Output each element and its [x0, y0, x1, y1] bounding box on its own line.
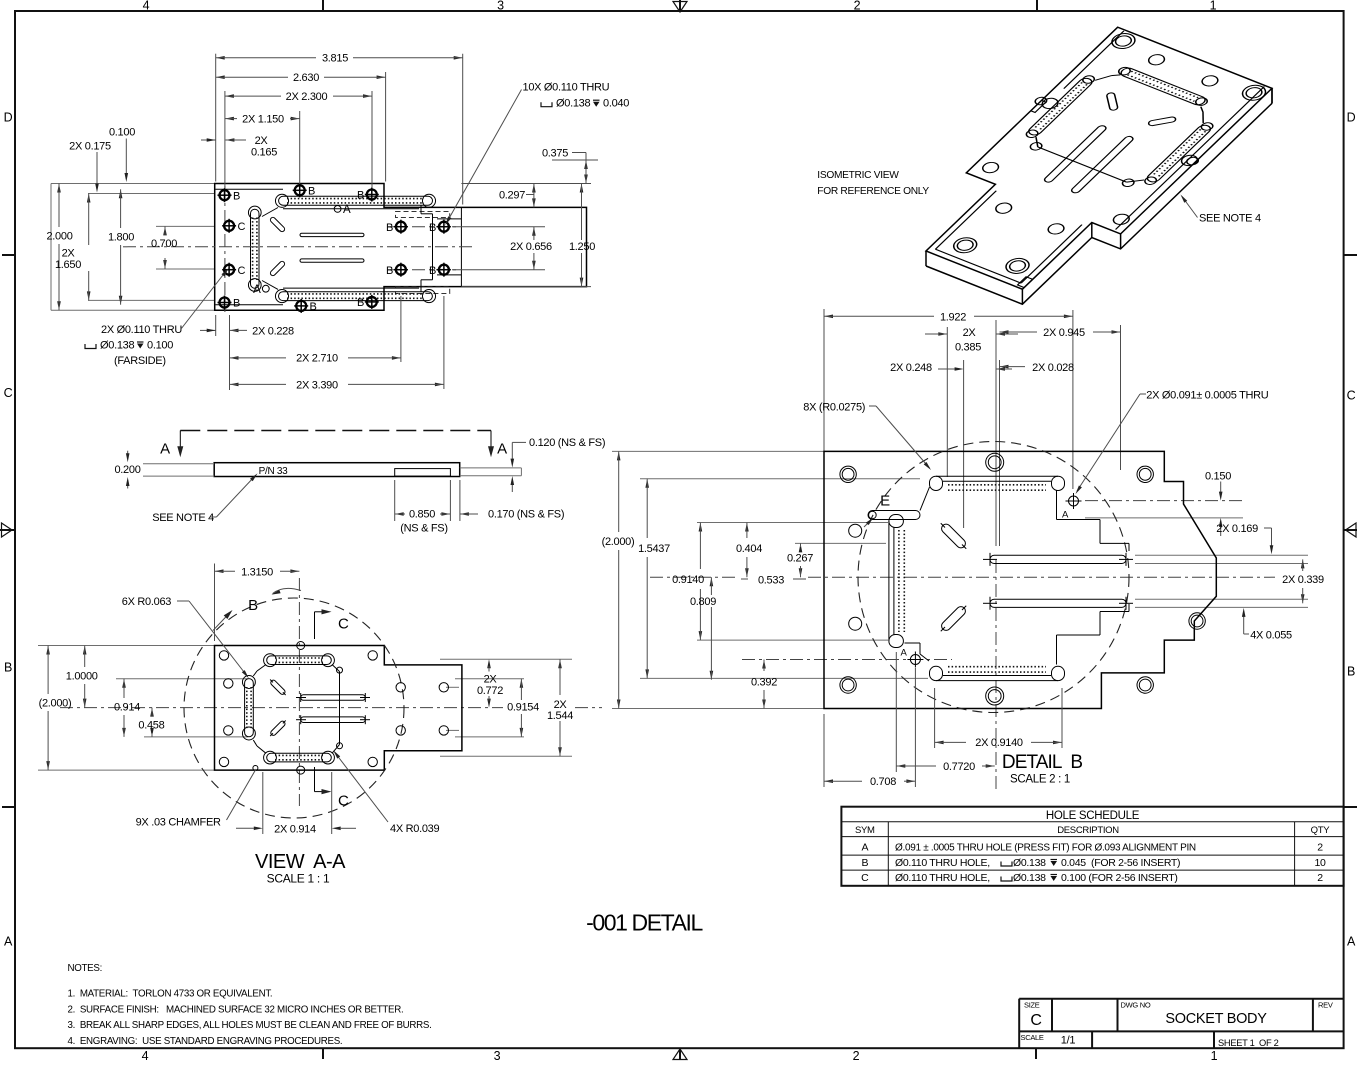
svg-text:B: B	[1347, 665, 1355, 679]
svg-text:DWG NO: DWG NO	[1121, 1001, 1151, 1010]
svg-text:SCALE 1 : 1: SCALE 1 : 1	[267, 872, 330, 886]
svg-text:C: C	[238, 265, 246, 277]
svg-text:0.200: 0.200	[114, 464, 140, 476]
svg-text:0.7720: 0.7720	[943, 761, 975, 773]
svg-text:0.392: 0.392	[751, 677, 777, 689]
svg-text:10: 10	[1314, 857, 1326, 869]
svg-text:0.297: 0.297	[499, 190, 525, 202]
svg-text:2X: 2X	[255, 135, 269, 147]
svg-text:B: B	[861, 857, 868, 869]
svg-text:D: D	[4, 111, 13, 125]
svg-text:A: A	[4, 935, 13, 949]
svg-text:1.800: 1.800	[108, 232, 134, 244]
svg-text:4: 4	[142, 1049, 149, 1063]
svg-text:2X 0.169: 2X 0.169	[1216, 523, 1258, 535]
svg-text:4. ENGRAVING: USE STANDARD E: 4. ENGRAVING: USE STANDARD ENGRAVING PRO…	[68, 1036, 343, 1047]
svg-text:1/1: 1/1	[1061, 1035, 1076, 1047]
svg-text:6X R0.063: 6X R0.063	[122, 596, 171, 608]
svg-text:(2.000): (2.000)	[39, 698, 72, 710]
svg-text:0.170 (NS & FS): 0.170 (NS & FS)	[488, 509, 564, 521]
svg-text:SIZE: SIZE	[1024, 1001, 1040, 1010]
svg-text:1.544: 1.544	[547, 710, 573, 722]
svg-text:4X 0.055: 4X 0.055	[1250, 630, 1292, 642]
svg-text:SEE NOTE 4: SEE NOTE 4	[1199, 213, 1261, 225]
svg-text:0.772: 0.772	[477, 685, 503, 697]
svg-text:1.3150: 1.3150	[241, 567, 273, 579]
svg-text:REV: REV	[1318, 1001, 1333, 1010]
svg-text:0.850: 0.850	[409, 509, 435, 521]
svg-text:Ø0.138: Ø0.138	[100, 340, 134, 352]
svg-text:2: 2	[853, 1049, 860, 1063]
svg-text:3. BREAK ALL SHARP EDGES, ALL: 3. BREAK ALL SHARP EDGES, ALL HOLES MUST…	[68, 1020, 432, 1031]
svg-text:P/N 33: P/N 33	[259, 466, 289, 477]
svg-text:0.165: 0.165	[251, 147, 277, 159]
svg-text:0.100 (FOR 2-56 INSERT): 0.100 (FOR 2-56 INSERT)	[1061, 872, 1178, 884]
svg-text:2X 0.914: 2X 0.914	[274, 823, 316, 835]
svg-text:E: E	[880, 493, 890, 510]
svg-text:2X 2.300: 2X 2.300	[286, 91, 328, 103]
svg-text:A: A	[160, 441, 170, 458]
svg-text:9X .03 CHAMFER: 9X .03 CHAMFER	[136, 816, 221, 828]
svg-text:(NS & FS): (NS & FS)	[400, 523, 447, 535]
svg-text:1: 1	[1210, 0, 1217, 13]
svg-text:2X: 2X	[554, 699, 568, 711]
svg-text:SOCKET BODY: SOCKET BODY	[1165, 1011, 1267, 1027]
svg-text:0.267: 0.267	[787, 553, 813, 565]
svg-text:2X 0.9140: 2X 0.9140	[975, 737, 1023, 749]
svg-text:C: C	[238, 221, 246, 233]
svg-text:0.375: 0.375	[542, 148, 568, 160]
svg-text:8X (R0.0275): 8X (R0.0275)	[803, 401, 865, 413]
svg-text:2X 3.390: 2X 3.390	[296, 380, 338, 392]
svg-text:B: B	[310, 301, 317, 313]
svg-text:2X: 2X	[963, 327, 977, 339]
svg-text:C: C	[4, 386, 13, 400]
svg-text:Ø0.138: Ø0.138	[1013, 872, 1046, 884]
svg-text:A: A	[861, 842, 868, 854]
svg-text:2X 0.945: 2X 0.945	[1043, 327, 1085, 339]
svg-text:0.150: 0.150	[1205, 471, 1231, 483]
svg-text:A: A	[1347, 935, 1356, 949]
svg-text:2: 2	[1317, 872, 1323, 884]
svg-text:B: B	[233, 298, 240, 310]
svg-text:0.100: 0.100	[109, 127, 135, 139]
svg-text:0.9140: 0.9140	[672, 574, 704, 586]
svg-text:1. MATERIAL: TORLON 4733 OR: 1. MATERIAL: TORLON 4733 OR EQUIVALENT.	[68, 989, 273, 1000]
svg-text:(FARSIDE): (FARSIDE)	[114, 355, 166, 367]
svg-text:C: C	[338, 616, 349, 633]
svg-text:2X 0.028: 2X 0.028	[1032, 362, 1074, 374]
svg-text:0.100: 0.100	[147, 340, 173, 352]
svg-text:0.9154: 0.9154	[507, 701, 539, 713]
svg-text:C: C	[1030, 1012, 1041, 1029]
svg-text:ISOMETRIC VIEW: ISOMETRIC VIEW	[817, 170, 899, 181]
svg-text:SCALE: SCALE	[1021, 1033, 1044, 1042]
svg-text:0.533: 0.533	[758, 574, 784, 586]
svg-text:0.914: 0.914	[114, 701, 140, 713]
svg-text:B: B	[357, 297, 364, 309]
svg-text:1: 1	[1211, 1049, 1218, 1063]
svg-text:2X 0.228: 2X 0.228	[252, 325, 294, 337]
svg-text:1.5437: 1.5437	[638, 543, 670, 555]
svg-text:2X: 2X	[62, 248, 76, 260]
svg-text:10X Ø0.110 THRU: 10X Ø0.110 THRU	[523, 82, 610, 94]
svg-text:2: 2	[1317, 842, 1323, 854]
svg-text:C: C	[338, 793, 349, 810]
svg-text:B: B	[386, 222, 393, 234]
svg-text:3: 3	[494, 1049, 501, 1063]
svg-text:C: C	[1347, 389, 1356, 403]
svg-text:B: B	[357, 190, 364, 202]
svg-text:0.040: 0.040	[603, 98, 629, 110]
svg-text:1.250: 1.250	[569, 241, 595, 253]
svg-text:B: B	[308, 186, 315, 198]
svg-text:Ø.091 ± .0005 THRU HOLE (PRESS: Ø.091 ± .0005 THRU HOLE (PRESS FIT) FOR …	[895, 843, 1196, 854]
svg-text:2X Ø0.091± 0.0005 THRU: 2X Ø0.091± 0.0005 THRU	[1146, 389, 1268, 401]
svg-text:0.458: 0.458	[138, 720, 164, 732]
svg-text:(2.000): (2.000)	[602, 536, 635, 548]
svg-text:DETAIL B: DETAIL B	[1002, 752, 1082, 773]
svg-text:0.809: 0.809	[690, 596, 716, 608]
svg-text:2X Ø0.110 THRU: 2X Ø0.110 THRU	[101, 324, 182, 336]
svg-text:SCALE 2 : 1: SCALE 2 : 1	[1010, 774, 1070, 786]
svg-text:B: B	[233, 191, 240, 203]
svg-text:Ø0.138: Ø0.138	[1013, 857, 1046, 869]
svg-text:0.385: 0.385	[955, 342, 981, 354]
svg-text:2. SURFACE FINISH: MACHINED: 2. SURFACE FINISH: MACHINED SURFACE 32 M…	[68, 1004, 404, 1015]
svg-text:SEE NOTE 4: SEE NOTE 4	[152, 512, 214, 524]
svg-text:3: 3	[497, 0, 504, 13]
svg-text:-001 DETAIL: -001 DETAIL	[586, 910, 703, 936]
svg-text:SHEET 1 OF 2: SHEET 1 OF 2	[1218, 1038, 1279, 1048]
svg-text:D: D	[1347, 111, 1356, 125]
svg-text:A: A	[343, 204, 351, 216]
svg-text:1.922: 1.922	[940, 311, 966, 323]
svg-text:FOR REFERENCE ONLY: FOR REFERENCE ONLY	[817, 186, 929, 197]
svg-text:4: 4	[143, 0, 150, 13]
svg-text:VIEW A-A: VIEW A-A	[255, 851, 346, 873]
svg-text:0.120 (NS & FS): 0.120 (NS & FS)	[529, 437, 605, 449]
svg-text:0.045 (FOR 2-56 INSERT): 0.045 (FOR 2-56 INSERT)	[1061, 857, 1180, 869]
svg-text:1.650: 1.650	[55, 259, 81, 271]
svg-text:Ø0.110 THRU HOLE,: Ø0.110 THRU HOLE,	[895, 857, 990, 869]
svg-text:2.630: 2.630	[293, 72, 319, 84]
svg-text:3.815: 3.815	[322, 53, 348, 65]
svg-text:HOLE SCHEDULE: HOLE SCHEDULE	[1046, 810, 1140, 822]
svg-text:SYM: SYM	[855, 825, 875, 836]
svg-text:QTY: QTY	[1311, 825, 1331, 836]
svg-text:2X: 2X	[484, 673, 498, 685]
svg-text:2: 2	[854, 0, 861, 13]
svg-text:C: C	[861, 872, 869, 884]
svg-text:2X 2.710: 2X 2.710	[296, 353, 338, 365]
svg-text:Ø0.138: Ø0.138	[556, 98, 590, 110]
svg-text:0.708: 0.708	[870, 776, 896, 788]
svg-text:A: A	[1062, 510, 1069, 521]
svg-text:DESCRIPTION: DESCRIPTION	[1057, 825, 1119, 836]
svg-text:2X 1.150: 2X 1.150	[242, 113, 284, 125]
svg-text:1.0000: 1.0000	[66, 671, 98, 683]
svg-text:B: B	[386, 265, 393, 277]
svg-text:2X 0.656: 2X 0.656	[510, 241, 552, 253]
svg-text:4X R0.039: 4X R0.039	[390, 823, 439, 835]
svg-text:2X 0.339: 2X 0.339	[1282, 574, 1324, 586]
svg-text:0.404: 0.404	[736, 543, 762, 555]
svg-text:A: A	[901, 648, 908, 659]
svg-text:2X 0.248: 2X 0.248	[890, 362, 932, 374]
svg-text:NOTES:: NOTES:	[68, 963, 103, 974]
svg-text:A: A	[497, 441, 507, 458]
svg-text:Ø0.110 THRU HOLE,: Ø0.110 THRU HOLE,	[895, 872, 990, 884]
svg-text:2.000: 2.000	[46, 231, 72, 243]
svg-text:B: B	[429, 222, 436, 234]
svg-text:B: B	[429, 265, 436, 277]
svg-text:A: A	[253, 284, 261, 296]
svg-text:B: B	[248, 597, 258, 614]
svg-text:2X 0.175: 2X 0.175	[69, 140, 111, 152]
svg-text:0.700: 0.700	[151, 238, 177, 250]
svg-text:B: B	[4, 661, 12, 675]
